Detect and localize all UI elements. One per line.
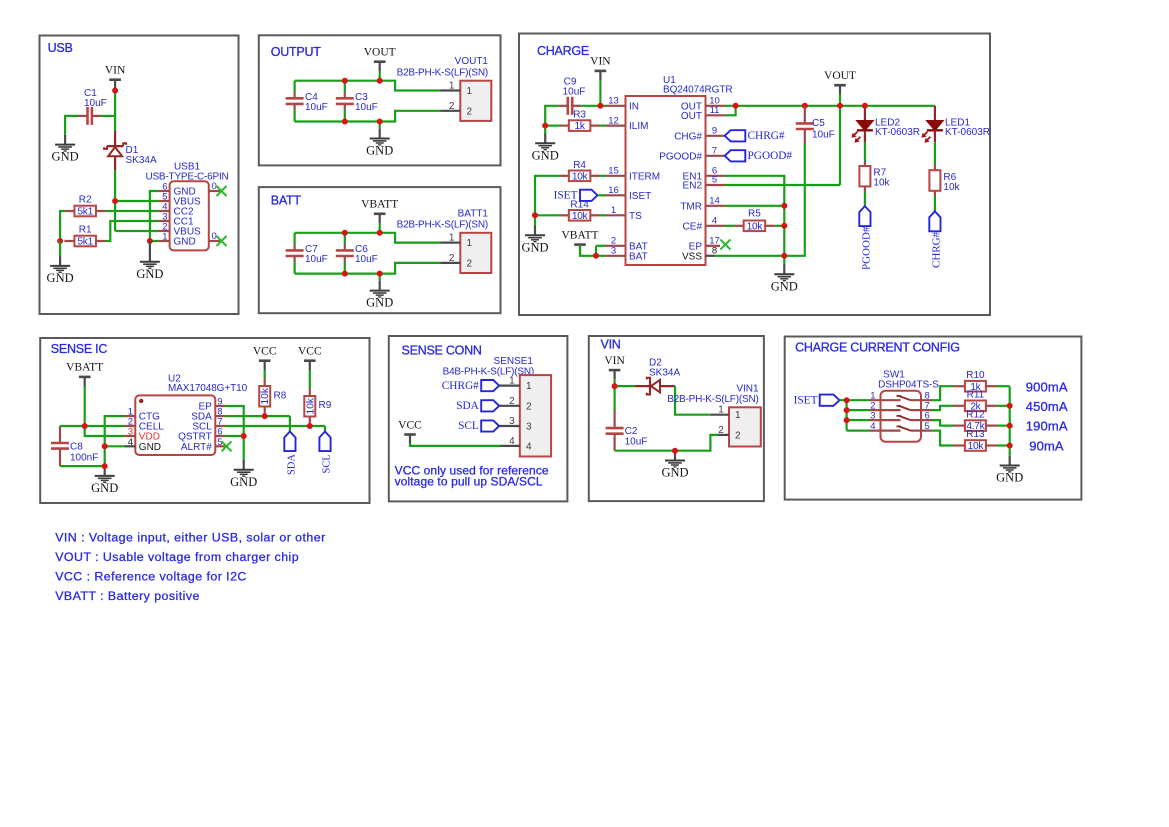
block USB title	[48, 41, 73, 55]
svg-text:GND: GND	[174, 237, 196, 248]
label 450mA	[1026, 399, 1068, 414]
svg-text:5k1: 5k1	[77, 237, 93, 248]
block SENSE CONN title	[402, 343, 482, 357]
svg-text:B2B-PH-K-S(LF)(SN): B2B-PH-K-S(LF)(SN)	[667, 394, 758, 405]
svg-text:CHARGE: CHARGE	[537, 44, 589, 58]
resistor R6	[929, 165, 960, 196]
svg-text:C5: C5	[812, 118, 825, 129]
wire C1 left to GND corner	[65, 116, 78, 135]
net label CHRG# (at U1 pin9)	[725, 130, 785, 142]
wire VIN stub	[613, 379, 615, 386]
svg-text:10uF: 10uF	[625, 437, 648, 448]
block USB frame	[40, 36, 239, 315]
wire R14 left	[535, 214, 560, 216]
power flag VBATT	[361, 199, 398, 224]
block CHARGE frame	[519, 34, 990, 316]
svg-text:3: 3	[526, 422, 532, 433]
svg-text:SENSE1: SENSE1	[494, 356, 534, 367]
svg-text:TMR: TMR	[680, 201, 702, 212]
diode D2	[635, 357, 681, 394]
junction GND (vin block)	[672, 448, 678, 454]
svg-text:16: 16	[608, 185, 619, 196]
wire R6 to CHRG tag	[934, 196, 936, 211]
svg-text:1: 1	[449, 233, 455, 244]
svg-text:VSS: VSS	[682, 251, 702, 262]
svg-text:5k1: 5k1	[77, 207, 93, 218]
svg-text:GND: GND	[366, 144, 393, 158]
resistor R1	[64, 225, 105, 248]
wire pin8 up to R10	[932, 386, 954, 400]
no-connect X pin0 bottom	[217, 236, 227, 246]
ground GND (charge left mid)	[521, 226, 548, 255]
svg-text:5: 5	[925, 421, 930, 432]
svg-text:190mA: 190mA	[1026, 419, 1068, 434]
ground GND (sense left)	[91, 466, 118, 495]
svg-text:SK34A: SK34A	[649, 367, 680, 378]
svg-text:GND: GND	[996, 471, 1023, 485]
svg-text:MAX17048G+T10: MAX17048G+T10	[168, 383, 248, 394]
junction C9GND-R3	[542, 123, 548, 129]
wire VIN down to C1 row and D1	[114, 91, 116, 132]
svg-text:10k: 10k	[873, 177, 890, 188]
wire VBATT to BAT pins	[580, 245, 606, 256]
junction top rail at VBATT	[377, 230, 383, 236]
label 90mA	[1029, 438, 1064, 453]
svg-text:VCC: VCC	[298, 346, 322, 358]
wire GND rail (config)	[1009, 386, 1011, 456]
svg-text:10uF: 10uF	[355, 102, 378, 113]
svg-text:CE#: CE#	[683, 221, 703, 232]
capacitor C6	[336, 233, 378, 274]
junction GND-pin4	[102, 443, 108, 449]
svg-text:1: 1	[467, 238, 473, 249]
svg-text:1: 1	[718, 405, 724, 416]
ground GND (charge left top)	[532, 134, 559, 163]
net label ISET (config)	[794, 394, 840, 406]
svg-text:KT-0603R: KT-0603R	[945, 127, 990, 138]
ground GND (under C1)	[52, 135, 79, 164]
resistor R8	[259, 386, 287, 407]
junction pin1-GND	[147, 238, 153, 244]
net label SDA (sense conn)	[456, 400, 499, 412]
wire LED2 to R7	[864, 142, 866, 161]
svg-text:PGOOD#: PGOOD#	[659, 151, 702, 162]
svg-text:10k: 10k	[572, 171, 589, 182]
svg-text:14: 14	[709, 196, 720, 207]
resistor R9	[304, 396, 331, 417]
svg-text:4: 4	[526, 441, 532, 452]
junction top rail at C6	[342, 230, 348, 236]
junction QSTRT rail	[241, 433, 247, 439]
svg-text:GND: GND	[661, 466, 688, 480]
wire C5 down to VSS rail	[784, 144, 805, 256]
LED LED2	[852, 106, 920, 143]
svg-text:VBATT : Battery positive: VBATT : Battery positive	[55, 589, 200, 603]
junction VBUS node	[112, 198, 118, 204]
svg-text:CHRG#: CHRG#	[442, 380, 479, 392]
svg-text:10uF: 10uF	[305, 102, 328, 113]
wire junction down to GND1	[59, 241, 61, 256]
svg-text:10uF: 10uF	[305, 254, 328, 265]
wire R4 left down rail	[535, 176, 560, 216]
resistor R13	[953, 429, 1010, 452]
wire C2 bottom rail to pin2	[615, 435, 718, 451]
wire VBATT to VDD pin3	[85, 426, 125, 436]
svg-text:VOUT : Usable voltage from cha: VOUT : Usable voltage from charger chip	[55, 550, 299, 564]
resistor R4	[560, 160, 600, 183]
block SENSE CONN frame	[389, 336, 568, 501]
wire rail down to GND (charge center)	[783, 256, 785, 265]
junction VOUT rail	[837, 103, 843, 109]
svg-text:VIN: VIN	[105, 65, 126, 77]
wire R9 to SCL row	[309, 417, 311, 427]
wire C9 to IN pin	[581, 105, 605, 107]
ground GND (under USB1)	[136, 252, 163, 281]
svg-text:VIN: VIN	[601, 338, 621, 352]
net label SCL (vertical)	[319, 432, 332, 474]
IC U1 BQ24074RGTR	[606, 75, 733, 265]
svg-text:GND: GND	[47, 271, 74, 285]
svg-text:VOUT: VOUT	[824, 70, 856, 82]
junction R9-SCL	[307, 423, 313, 429]
junction rail R13	[1007, 443, 1013, 449]
svg-text:5: 5	[712, 175, 717, 186]
svg-text:VCC : Reference voltage for I2: VCC : Reference voltage for I2C	[55, 570, 247, 584]
net label ISET (charge)	[554, 190, 598, 202]
svg-text:10uF: 10uF	[563, 87, 586, 98]
capacitor C4	[286, 81, 328, 122]
svg-text:CHRG#: CHRG#	[930, 231, 942, 268]
wire VOUT rail to LED1	[865, 105, 935, 107]
wire bottom rail	[295, 111, 441, 122]
diode D1	[104, 131, 157, 170]
svg-text:C8: C8	[70, 442, 83, 453]
wire GND column pins 6 and 1	[150, 191, 158, 241]
svg-text:10uF: 10uF	[355, 254, 378, 265]
ground GND (sense right)	[230, 460, 257, 489]
svg-text:10k: 10k	[305, 397, 316, 414]
wire R2 left to GND rail	[60, 211, 64, 241]
svg-text:1: 1	[162, 232, 167, 243]
svg-text:KT-0603R: KT-0603R	[875, 127, 920, 138]
svg-text:4: 4	[712, 216, 717, 227]
power flag VCC (R9)	[298, 346, 322, 371]
wire VSS to rail	[715, 255, 785, 257]
junction TMR rail	[781, 203, 787, 209]
label 190mA	[1026, 419, 1068, 434]
capacitor C1	[79, 88, 107, 125]
label 900mA	[1026, 380, 1068, 395]
wire R4 right to ITERM	[600, 175, 606, 177]
svg-text:90mA: 90mA	[1029, 438, 1064, 453]
resistor R12	[953, 409, 1010, 432]
junction bottom rail at C6	[342, 271, 348, 277]
svg-text:10k: 10k	[747, 221, 764, 232]
note VOUT description	[55, 550, 299, 564]
wire R3 right to ILIM	[600, 124, 606, 126]
wire R3 left	[545, 124, 560, 126]
junction CE rail	[781, 223, 787, 229]
svg-text:10k: 10k	[572, 211, 589, 222]
wire GND stub	[379, 274, 381, 281]
resistor R2	[64, 195, 105, 218]
wire GND stub	[379, 122, 381, 129]
wire top rail	[295, 233, 441, 243]
svg-text:VIN: VIN	[590, 56, 611, 68]
junction VSS rail	[781, 253, 787, 259]
svg-text:IN: IN	[629, 101, 639, 112]
svg-text:R12: R12	[966, 409, 985, 420]
svg-text:R1: R1	[79, 225, 92, 236]
power flag VIN (CHARGE)	[590, 56, 611, 81]
wire ISET tag to pin16	[598, 194, 606, 196]
svg-text:2: 2	[718, 425, 724, 436]
wire VBATT stub to rail	[379, 223, 381, 233]
junction bottom rail at C3	[342, 119, 348, 125]
svg-text:10uF: 10uF	[812, 130, 835, 141]
connector BATT1 B2B-PH-K-S(LF)(SN)	[397, 208, 492, 273]
svg-text:12: 12	[608, 115, 619, 126]
svg-text:10uF: 10uF	[84, 98, 107, 109]
svg-text:R3: R3	[573, 110, 586, 121]
wire R1 right up to CC1 pin3	[106, 221, 159, 241]
junction OUT10-OUT11	[733, 103, 739, 109]
junction VIN-C1-D1 node	[112, 88, 118, 94]
wire down to GND (charge left top)	[544, 126, 546, 134]
wire CTG pin1 to GND rail	[105, 416, 125, 466]
svg-text:4: 4	[870, 421, 875, 432]
wire ISET bus to switch pins	[840, 400, 870, 430]
svg-text:VIN: VIN	[604, 355, 625, 367]
wire top rail	[295, 81, 441, 91]
LED LED1	[922, 106, 990, 143]
wire TMR to rail	[725, 205, 784, 207]
block OUTPUT frame	[259, 35, 501, 165]
connector VOUT1 B2B-PH-K-S(LF)(SN)	[397, 56, 492, 121]
junction LED2 rail	[862, 103, 868, 109]
svg-text:VOUT: VOUT	[364, 47, 396, 59]
svg-text:10k: 10k	[943, 182, 960, 193]
svg-text:ITERM: ITERM	[629, 171, 660, 182]
svg-text:2: 2	[467, 258, 473, 269]
net label PGOOD# (at U1 pin7)	[725, 150, 793, 162]
resistor R14	[560, 199, 600, 222]
svg-text:C2: C2	[625, 426, 638, 437]
wire VOUT stub to rail	[379, 71, 381, 81]
svg-text:VCC: VCC	[398, 419, 422, 431]
wire bottom rail	[295, 263, 441, 274]
svg-text:2: 2	[449, 253, 455, 264]
svg-text:BAT: BAT	[629, 251, 648, 262]
svg-text:2: 2	[526, 401, 532, 412]
net label CHRG# (vertical)	[929, 211, 942, 268]
svg-text:1: 1	[735, 410, 741, 421]
svg-text:7: 7	[712, 146, 717, 157]
wire VBATT down	[84, 386, 86, 426]
wire SCL row to tag	[225, 426, 325, 432]
wire R2 to CC2 pin4	[106, 210, 159, 212]
resistor R3	[560, 110, 600, 133]
junction VIN-IN	[597, 103, 603, 109]
svg-text:VCC: VCC	[253, 346, 277, 358]
junction VBATT node	[82, 423, 88, 429]
block VIN frame	[589, 336, 764, 501]
block CHARGE CURRENT CONFIG title	[795, 340, 960, 354]
svg-text:1: 1	[449, 81, 455, 92]
svg-text:CHARGE CURRENT CONFIG: CHARGE CURRENT CONFIG	[795, 340, 960, 354]
no-connect X ALRT# pin5	[222, 441, 232, 451]
power flag VBATT (charge)	[561, 229, 598, 254]
svg-text:SCL: SCL	[458, 420, 479, 432]
block OUTPUT title	[271, 45, 322, 59]
power flag VCC (R8)	[253, 346, 277, 371]
svg-text:R2: R2	[79, 195, 92, 206]
wire R14 right to TS	[600, 214, 606, 216]
junction rail R11	[1007, 403, 1013, 409]
wire VCC to R8	[264, 370, 266, 386]
wire VIN stub down	[599, 80, 601, 106]
note VBATT description	[55, 589, 200, 603]
svg-text:R11: R11	[967, 390, 985, 401]
junction R8-SDA	[262, 413, 268, 419]
svg-text:450mA: 450mA	[1026, 399, 1068, 414]
svg-text:1: 1	[509, 376, 515, 387]
svg-text:ISET: ISET	[554, 190, 578, 202]
junction bottom rail at GND	[377, 271, 383, 277]
svg-text:SENSE CONN: SENSE CONN	[402, 343, 482, 357]
wire R7 to PGOOD tag	[864, 192, 866, 207]
wire C9 left to GND rail	[545, 106, 559, 126]
wire D1 to VBUS node	[114, 170, 116, 201]
svg-text:ILIM: ILIM	[629, 121, 648, 132]
svg-text:GND: GND	[521, 240, 548, 254]
wire LED1 to R6	[934, 142, 936, 165]
wire VBUS node to pin5 and down to pin2 row	[115, 201, 158, 231]
svg-text:ISET: ISET	[629, 191, 651, 202]
svg-text:GND: GND	[52, 150, 79, 164]
junction bottom rail at GND	[377, 119, 383, 125]
wire VBATT to CELL pin2	[85, 425, 125, 427]
junction R1-GND	[57, 238, 63, 244]
ground GND (BATT1 block)	[366, 281, 393, 310]
ground GND (charge center)	[771, 265, 798, 294]
svg-text:1: 1	[467, 86, 473, 97]
IC U2 MAX17048G+T10	[125, 373, 248, 455]
svg-text:BATT: BATT	[271, 194, 302, 208]
svg-text:USB: USB	[48, 41, 73, 55]
power flag VIN (USB)	[105, 65, 126, 90]
svg-text:VBATT: VBATT	[361, 199, 398, 211]
svg-text:VOUT1: VOUT1	[455, 56, 489, 67]
block VIN title	[601, 338, 621, 352]
svg-text:3: 3	[509, 416, 515, 427]
note VIN description	[55, 531, 325, 545]
connector VIN1 B2B-PH-K-S(LF)(SN)	[667, 383, 761, 446]
capacitor C2	[606, 386, 648, 451]
svg-text:OUTPUT: OUTPUT	[271, 45, 322, 59]
ground GND (vin block)	[661, 451, 688, 480]
svg-text:TS: TS	[629, 211, 642, 222]
wire VIN to D2	[615, 385, 635, 387]
svg-text:SCL: SCL	[321, 454, 332, 473]
net label CHRG# (sense conn)	[442, 380, 499, 392]
junction top rail at VOUT	[377, 78, 383, 84]
wire SDA row to tag	[225, 416, 290, 431]
svg-text:10k: 10k	[968, 441, 985, 452]
wire EN1 to GND rail	[725, 176, 784, 256]
wire VOUT stub and EN2 drop	[725, 95, 840, 186]
resistor R11	[953, 390, 1010, 413]
svg-text:R10: R10	[966, 370, 985, 381]
note VCC description	[55, 570, 247, 584]
wire rail down to GND (charge left mid)	[534, 215, 536, 225]
svg-text:GND: GND	[136, 267, 163, 281]
wire C1 right to VIN column	[101, 115, 115, 117]
power flag VBATT (sense)	[66, 362, 103, 387]
ground GND (USB left)	[47, 256, 74, 285]
svg-text:4: 4	[128, 437, 133, 448]
junction VBATT-BAT3	[593, 253, 599, 259]
svg-text:B2B-PH-K-S(LF)(SN): B2B-PH-K-S(LF)(SN)	[397, 68, 488, 79]
block BATT title	[271, 194, 302, 208]
svg-text:R4: R4	[573, 160, 586, 171]
power flag VCC (sense conn)	[398, 419, 422, 444]
svg-text:VIN1: VIN1	[736, 383, 759, 394]
svg-text:GND: GND	[139, 442, 161, 453]
block CHARGE title	[537, 44, 589, 58]
wire VCC to pin4	[410, 444, 500, 446]
net label SDA (vertical)	[284, 432, 297, 476]
wire C8 bottom to GND	[60, 465, 105, 467]
block BATT frame	[259, 187, 501, 313]
svg-text:GND: GND	[771, 279, 798, 293]
connector SENSE1 B4B-PH-K-S(LF)(SN)	[443, 356, 552, 457]
svg-text:1: 1	[526, 381, 532, 392]
junction ISET pin1	[844, 397, 850, 403]
power flag VOUT (CHARGE)	[824, 70, 856, 95]
svg-text:R5: R5	[748, 209, 761, 220]
junction top rail at C3	[342, 78, 348, 84]
svg-text:BATT1: BATT1	[458, 208, 489, 219]
connector USB1 USB-TYPE-C-6PIN	[145, 162, 228, 251]
svg-text:SK34A: SK34A	[126, 155, 157, 166]
svg-text:2: 2	[735, 430, 741, 441]
svg-text:R13: R13	[966, 429, 985, 440]
block CHARGE CURRENT CONFIG frame	[785, 337, 1082, 500]
svg-text:VIN : Voltage input, either US: VIN : Voltage input, either USB, solar o…	[55, 531, 325, 545]
svg-text:900mA: 900mA	[1026, 380, 1068, 395]
wire R8 to SDA row	[264, 407, 266, 417]
block SENSE IC frame	[40, 338, 369, 503]
wire pin6 to R12	[932, 420, 954, 426]
svg-text:6: 6	[925, 411, 930, 422]
junction VIN node	[612, 383, 618, 389]
svg-text:SENSE IC: SENSE IC	[51, 342, 108, 356]
svg-text:3: 3	[870, 411, 875, 422]
ground GND (VOUT1 block)	[366, 129, 393, 158]
svg-text:2: 2	[467, 106, 473, 117]
svg-text:VBATT: VBATT	[561, 229, 598, 241]
ground GND (config)	[996, 456, 1023, 485]
switch SW1 DSHP04TS-S	[870, 370, 940, 442]
capacitor C8	[51, 426, 98, 466]
svg-text:100nF: 100nF	[70, 453, 98, 464]
wire D2 to VIN1 pin1	[675, 386, 710, 415]
svg-text:SDA: SDA	[286, 454, 297, 475]
wire EP to GND rail (sense)	[225, 406, 244, 460]
wire OUT pins to VOUT rail	[725, 106, 865, 116]
junction rail R12	[1007, 423, 1013, 429]
